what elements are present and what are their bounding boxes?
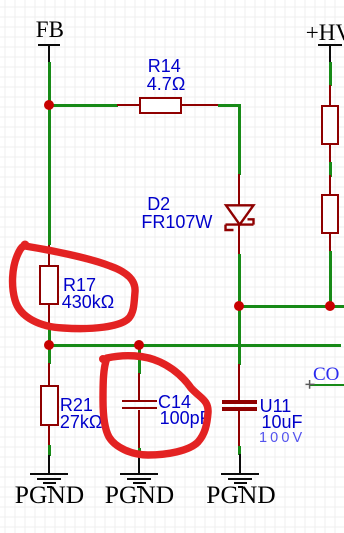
node B junction [234, 301, 244, 311]
wire between right resistors [329, 162, 332, 177]
annotation marker circle around R17 [0, 230, 150, 340]
resistor upper right [329, 85, 332, 106]
wire lower right resistor to node C [329, 251, 332, 306]
label 100pF [160, 409, 211, 427]
node C junction [325, 301, 335, 311]
wire +HV down [329, 62, 332, 86]
net label CO [313, 365, 339, 384]
wire end marker cross [305, 380, 315, 389]
label U11 [260, 397, 292, 415]
label 10uF [262, 413, 303, 431]
port FB [36, 18, 64, 41]
resistor R17 [48, 245, 51, 266]
wire C14 to ground [138, 448, 141, 457]
wire node A to R17 [48, 105, 51, 245]
node D junction [44, 340, 54, 350]
label R21 [60, 396, 93, 414]
ground PGND 3 [239, 454, 241, 474]
diode D2 [238, 174, 241, 206]
wire R17 to node D [48, 324, 51, 347]
wire node D to R21 [48, 345, 51, 364]
label 4.7ohm [147, 75, 185, 93]
wire net CO [309, 384, 344, 387]
resistor R21 [48, 363, 51, 386]
label R17 [63, 276, 96, 294]
label 27kohm [60, 413, 102, 431]
wire node E to C14 [138, 345, 141, 374]
node E junction [134, 340, 144, 350]
port +HV [306, 21, 344, 44]
wire R14 to D2 [218, 104, 241, 107]
ground PGND 1 [48, 455, 50, 474]
wire node B through crossing to U11 [238, 306, 241, 365]
ground PGND 2 [138, 455, 140, 474]
wire R21 to ground [48, 445, 51, 457]
label D2 [147, 195, 170, 213]
resistor lower right [329, 175, 332, 195]
capacitor U11 [238, 364, 241, 401]
wire node B to node C and right edge [239, 305, 344, 308]
wire D2 to node B [238, 254, 241, 307]
annotation marker circle around C14 [90, 340, 220, 465]
label FR107W [141, 213, 212, 231]
resistor R14 [117, 104, 140, 107]
label C14 [158, 393, 191, 411]
label R14 [148, 57, 181, 75]
wire node A to R14 [49, 104, 118, 107]
capacitor C14 [138, 373, 141, 401]
wire node D to node E and node F column [49, 344, 341, 347]
label 430kohm [62, 293, 115, 311]
wire FB to node A [48, 62, 51, 106]
node A junction [44, 100, 54, 110]
wire U11 to ground [238, 446, 241, 455]
